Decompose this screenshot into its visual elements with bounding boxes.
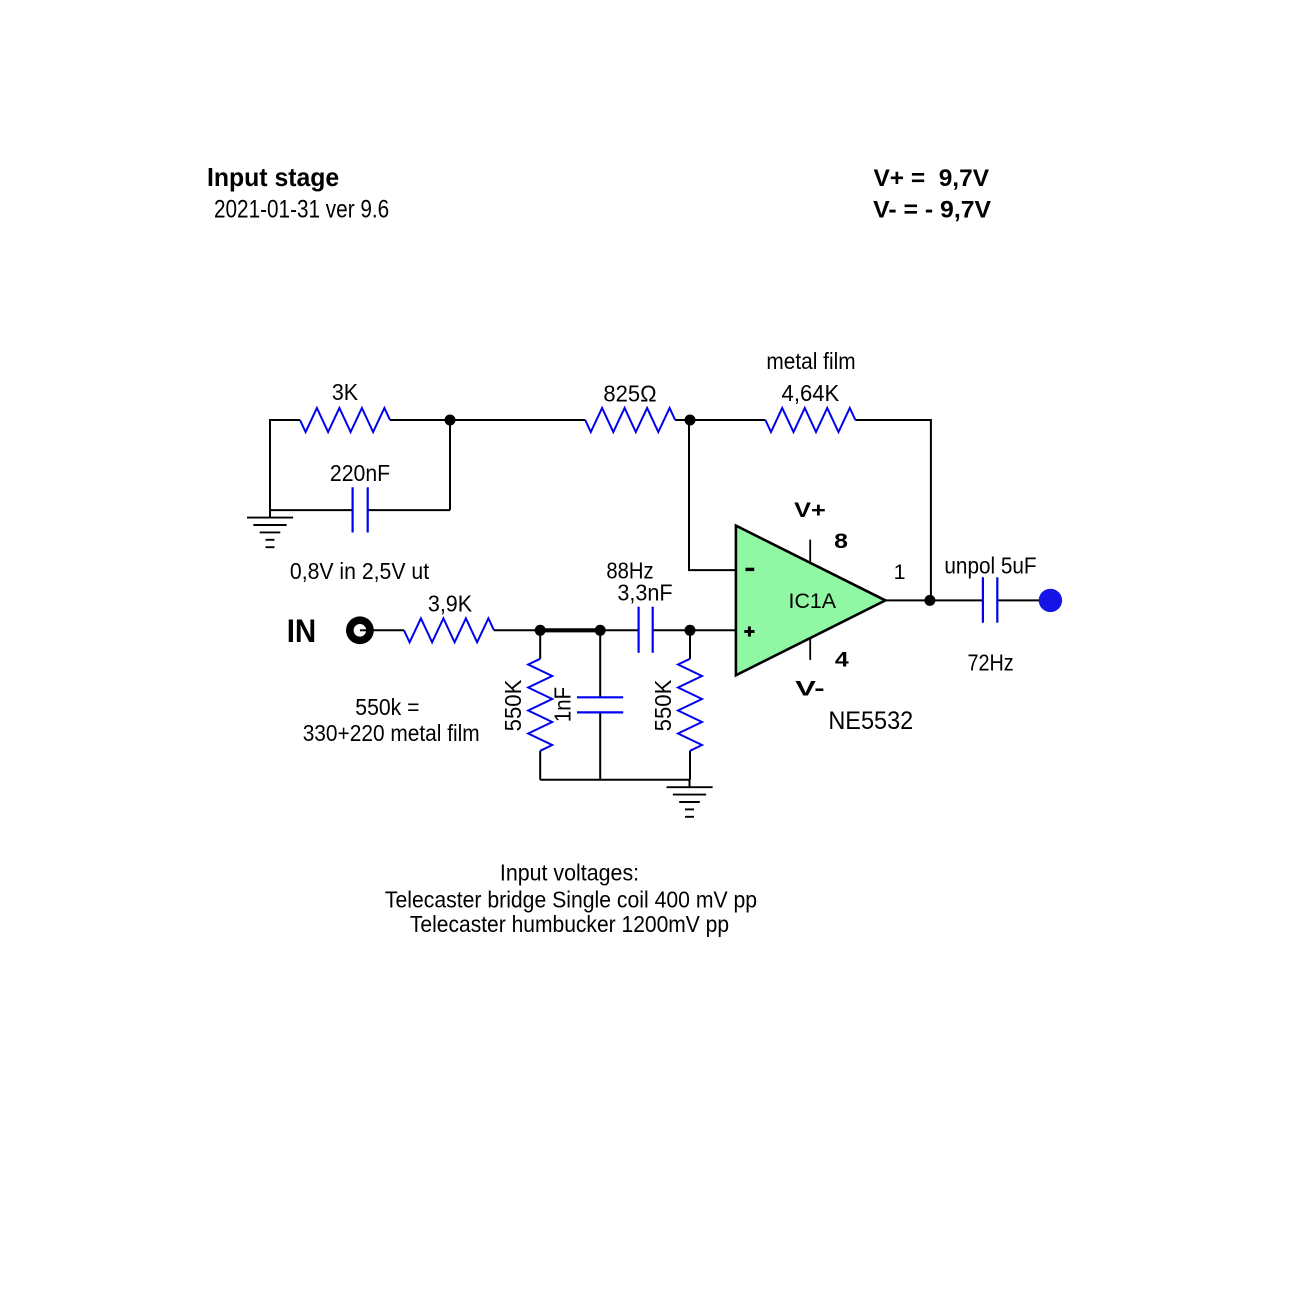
svg-text:72Hz: 72Hz bbox=[968, 649, 1014, 675]
svg-text:Telecaster bridge Single coil: Telecaster bridge Single coil 400 mV pp bbox=[385, 887, 757, 913]
svg-text:550k =: 550k = bbox=[355, 694, 419, 720]
svg-text:IN: IN bbox=[287, 613, 317, 649]
svg-text:0,8V in 2,5V ut: 0,8V in 2,5V ut bbox=[290, 558, 430, 584]
svg-text:3,3nF: 3,3nF bbox=[617, 579, 672, 605]
svg-text:V+ = 9,7V: V+ = 9,7V bbox=[874, 165, 990, 192]
svg-text:2021-01-31 ver 9.6: 2021-01-31 ver 9.6 bbox=[214, 196, 389, 224]
svg-text:330+220 metal film: 330+220 metal film bbox=[303, 720, 480, 746]
svg-text:8: 8 bbox=[834, 530, 848, 553]
svg-text:4: 4 bbox=[835, 649, 849, 672]
svg-text:Telecaster humbucker 1200mV pp: Telecaster humbucker 1200mV pp bbox=[410, 911, 729, 937]
svg-text:V-: V- bbox=[795, 678, 824, 701]
svg-text:NE5532: NE5532 bbox=[828, 707, 913, 735]
svg-text:Input voltages:: Input voltages: bbox=[500, 860, 639, 886]
svg-text:550K: 550K bbox=[500, 679, 526, 731]
svg-text:IC1A: IC1A bbox=[789, 590, 837, 613]
svg-text:1nF: 1nF bbox=[550, 687, 576, 722]
svg-text:4,64K: 4,64K bbox=[782, 380, 840, 406]
svg-text:220nF: 220nF bbox=[330, 460, 390, 486]
svg-text:unpol 5uF: unpol 5uF bbox=[944, 552, 1036, 578]
svg-text:V+: V+ bbox=[794, 499, 826, 522]
svg-text:550K: 550K bbox=[650, 679, 676, 731]
svg-text:3K: 3K bbox=[332, 379, 359, 405]
svg-text:1: 1 bbox=[894, 561, 906, 584]
svg-text:825Ω: 825Ω bbox=[603, 381, 656, 407]
svg-text:Input stage: Input stage bbox=[207, 162, 339, 192]
svg-text:metal film: metal film bbox=[766, 348, 855, 374]
svg-text:V- = - 9,7V: V- = - 9,7V bbox=[873, 197, 991, 224]
svg-text:3,9K: 3,9K bbox=[428, 590, 473, 616]
